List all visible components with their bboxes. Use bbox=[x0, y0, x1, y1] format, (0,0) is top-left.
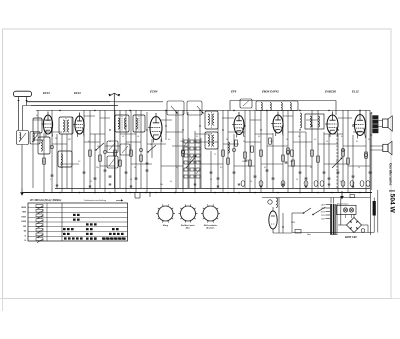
band switch table frame bbox=[28, 203, 128, 241]
coil BF2 windings bbox=[136, 118, 137, 129]
resistors mid band bbox=[43, 148, 368, 166]
svg-text:LW: LW bbox=[23, 226, 26, 228]
svg-text:2k: 2k bbox=[243, 141, 245, 143]
label knob right bbox=[204, 224, 218, 229]
svg-text:220V: 220V bbox=[290, 222, 296, 224]
label B250 C90 bbox=[345, 235, 357, 239]
coil L2 squiggle bbox=[63, 120, 69, 132]
IF transformer can T2 bbox=[205, 111, 218, 129]
rectifier tube V8 bbox=[269, 207, 277, 233]
svg-text:0,1: 0,1 bbox=[176, 167, 178, 169]
electrolytic capacitors row bbox=[241, 181, 370, 187]
svg-text:0,1: 0,1 bbox=[36, 115, 38, 117]
tube V7 bbox=[353, 111, 366, 139]
potentiometer volume bbox=[186, 155, 197, 168]
wire antenna lead to set bbox=[27, 101, 111, 103]
svg-text:ZF=468 kHz (M+L)=460kHz: ZF=468 kHz (M+L)=460kHz bbox=[29, 199, 62, 202]
svg-text:10: 10 bbox=[130, 179, 132, 181]
svg-text:0,1: 0,1 bbox=[170, 181, 172, 183]
label tube V3 ECH4 bbox=[150, 90, 158, 94]
label UKW small bbox=[290, 222, 296, 224]
svg-text:0,1: 0,1 bbox=[90, 181, 92, 183]
wires upper links bbox=[33, 116, 366, 134]
tuner box top B bbox=[187, 101, 204, 115]
svg-text:0,1: 0,1 bbox=[264, 167, 266, 169]
coil L7 squiggle bbox=[208, 135, 214, 146]
coil can2 windings bbox=[61, 154, 62, 165]
svg-text:25: 25 bbox=[109, 141, 111, 143]
tube V4 bbox=[232, 112, 244, 138]
dial lamp La1 bbox=[343, 208, 347, 212]
mains switch bbox=[292, 208, 311, 214]
speaker LS1 bbox=[383, 116, 393, 131]
wire rectifier riser bbox=[278, 198, 280, 234]
capacitor electrolytic C90 bbox=[373, 198, 376, 233]
ground antenna bbox=[20, 187, 24, 195]
label tube V2 EF13 bbox=[74, 91, 81, 95]
switch antenna selector bbox=[18, 102, 20, 131]
wire lamps leads bbox=[341, 198, 352, 226]
IF transformer can T1 bbox=[59, 117, 73, 134]
ground arrow right bbox=[340, 191, 344, 199]
fuse box small bbox=[350, 195, 355, 198]
svg-text:0,5: 0,5 bbox=[314, 139, 316, 141]
svg-text:5: 5 bbox=[50, 179, 51, 181]
svg-text:EM34 EAF42: EM34 EAF42 bbox=[262, 90, 279, 94]
wire output transformer bracket bbox=[370, 113, 372, 135]
knob front view right bbox=[201, 204, 220, 222]
svg-text:5k: 5k bbox=[356, 141, 358, 143]
tube V2 bbox=[73, 113, 84, 138]
svg-text:0,1: 0,1 bbox=[88, 141, 90, 143]
svg-text:0,5: 0,5 bbox=[220, 167, 222, 169]
svg-text:MW: MW bbox=[22, 212, 26, 214]
wire antenna down-leads bbox=[26, 102, 28, 106]
svg-text:0,1: 0,1 bbox=[118, 161, 120, 163]
junction dots mid bbox=[51, 110, 360, 131]
wire power bottom rail bbox=[262, 197, 370, 199]
coil BF1 windings bbox=[118, 118, 126, 129]
svg-text:10k: 10k bbox=[290, 161, 293, 163]
svg-text:EL12: EL12 bbox=[352, 90, 359, 94]
tube V6 bbox=[325, 112, 338, 138]
filter choke above rectifier bbox=[268, 198, 278, 208]
svg-text:0,1: 0,1 bbox=[341, 136, 343, 138]
svg-text:1k: 1k bbox=[358, 167, 360, 169]
band filter can BF2 bbox=[133, 115, 145, 132]
svg-text:25k: 25k bbox=[198, 161, 201, 163]
IF transformer can T3 bbox=[205, 132, 218, 149]
coil box M1 bbox=[107, 141, 118, 153]
antenna dipole FM bbox=[108, 93, 120, 110]
svg-text:B250 C90: B250 C90 bbox=[345, 235, 357, 239]
coil L5 vertical bbox=[300, 113, 302, 128]
tube V3 bbox=[148, 113, 162, 143]
switch zigzag linkage bbox=[37, 206, 43, 243]
wire second lead bbox=[23, 105, 119, 107]
svg-text:0,1: 0,1 bbox=[258, 136, 260, 138]
svg-text:100: 100 bbox=[242, 161, 245, 163]
wire chassis bus bbox=[22, 192, 372, 194]
svg-text:Netz: Netz bbox=[307, 233, 311, 236]
oscillator coil can bbox=[38, 137, 50, 154]
svg-text:L4: L4 bbox=[122, 136, 124, 138]
trimmer circles bbox=[50, 145, 367, 156]
capacitors mid band bbox=[51, 163, 372, 179]
svg-text:EF13: EF13 bbox=[43, 91, 50, 95]
knob front view left bbox=[156, 204, 175, 222]
dial lamps box bbox=[337, 205, 357, 214]
bridge rectifier Gr1 bbox=[347, 218, 362, 233]
table row labels bbox=[21, 207, 27, 242]
wire mains vertical bbox=[291, 213, 293, 233]
svg-text:25: 25 bbox=[210, 179, 212, 181]
svg-text:Drehkondensator-Stellung: Drehkondensator-Stellung bbox=[84, 199, 107, 202]
coil box M3 bbox=[107, 156, 118, 168]
switch arm band bbox=[95, 143, 104, 151]
svg-text:Abstimm.: Abstimm. bbox=[205, 227, 215, 230]
svg-text:50: 50 bbox=[134, 167, 136, 169]
svg-text:UKW: UKW bbox=[21, 207, 26, 209]
svg-text:0,5: 0,5 bbox=[168, 139, 170, 141]
wave switch contact bank bbox=[183, 138, 201, 188]
tube V1 bbox=[41, 112, 52, 138]
table title ZF bbox=[29, 199, 62, 202]
fuse circle bbox=[361, 229, 365, 233]
coil L8 bbox=[228, 142, 229, 153]
svg-text:50: 50 bbox=[310, 167, 312, 169]
knob front view middle bbox=[179, 204, 198, 222]
svg-text:ECH4: ECH4 bbox=[150, 90, 158, 94]
wires stage verticals bbox=[33, 110, 370, 193]
speaker LS2 bbox=[383, 141, 392, 155]
svg-text:10: 10 bbox=[296, 179, 298, 181]
mechanical link dashed bbox=[336, 135, 338, 188]
dial lamp La2 bbox=[349, 208, 353, 212]
wire mains bottom bbox=[292, 232, 374, 234]
coil can lower2 bbox=[58, 151, 72, 167]
svg-text:EF9: EF9 bbox=[231, 90, 237, 94]
voltage selector contacts bbox=[321, 204, 330, 220]
svg-text:10k: 10k bbox=[160, 184, 163, 186]
svg-text:2k: 2k bbox=[326, 141, 328, 143]
svg-text:Skalenlampen: Skalenlampen bbox=[337, 203, 348, 205]
label Netz bbox=[295, 230, 311, 237]
label knob middle bbox=[181, 224, 195, 229]
svg-text:EF13: EF13 bbox=[74, 91, 81, 95]
antenna A1 bbox=[14, 91, 32, 102]
switch arm band 2 bbox=[147, 145, 156, 153]
switch contact squares column bbox=[36, 205, 43, 241]
switch box S1 bbox=[17, 131, 29, 145]
capacitor extra1 bbox=[245, 160, 288, 163]
svg-text:0,5: 0,5 bbox=[78, 161, 80, 163]
label knob left bbox=[163, 225, 169, 227]
switch box S2 bbox=[30, 132, 40, 145]
svg-text:50: 50 bbox=[226, 139, 228, 141]
junction dots on chassis bus bbox=[59, 192, 361, 194]
svg-text:50: 50 bbox=[368, 139, 370, 141]
wire left vertical bbox=[21, 106, 24, 188]
component value labels bbox=[36, 115, 370, 186]
svg-text:20k: 20k bbox=[96, 167, 99, 169]
wire speaker leads bbox=[370, 121, 383, 151]
label lamps bbox=[337, 203, 348, 205]
resistor extra1 bbox=[235, 138, 294, 156]
svg-text:100: 100 bbox=[60, 167, 63, 169]
tube V5 bbox=[271, 112, 283, 137]
svg-text:| 504 W: | 504 W bbox=[389, 190, 396, 214]
svg-text:10k: 10k bbox=[180, 141, 183, 143]
capacitors to chassis bbox=[56, 184, 354, 187]
tuner box top A bbox=[167, 101, 184, 115]
svg-text:Klang: Klang bbox=[163, 225, 169, 227]
tuner box top D bbox=[240, 99, 252, 108]
wire bridge connections bbox=[338, 214, 368, 233]
band filter can BF1 bbox=[115, 115, 129, 132]
output transformer T5 bbox=[372, 115, 378, 133]
wires stage horizontal links bbox=[33, 140, 370, 166]
wire B+ rail bbox=[36, 110, 370, 112]
svg-text:5k: 5k bbox=[286, 139, 288, 141]
wire top rail right bbox=[230, 101, 336, 116]
caption model side text bbox=[388, 163, 395, 214]
label tube V6 EABC80 bbox=[325, 90, 336, 94]
wire chassis bus upper bbox=[55, 188, 370, 190]
svg-text:0,1: 0,1 bbox=[250, 181, 252, 183]
voltage selector arm bbox=[312, 207, 325, 215]
label tube V7 EL12 bbox=[352, 90, 359, 94]
svg-text:0,1: 0,1 bbox=[196, 136, 198, 138]
potentiometer tone bbox=[332, 157, 343, 168]
wire right border bbox=[370, 112, 378, 235]
svg-text:0,2: 0,2 bbox=[42, 161, 44, 163]
svg-text:Abst.: Abst. bbox=[185, 227, 191, 230]
svg-text:L6: L6 bbox=[137, 136, 139, 138]
label tube V4 EF9 bbox=[231, 90, 237, 94]
svg-text:50: 50 bbox=[55, 138, 57, 140]
ratio detector box bbox=[305, 114, 324, 129]
svg-text:30: 30 bbox=[298, 136, 300, 138]
coil osc windings bbox=[41, 140, 42, 151]
coil can L1 bbox=[33, 118, 42, 133]
wires below bus stubs bbox=[135, 192, 151, 198]
power transformer T4 bbox=[330, 198, 337, 235]
coil box M2 bbox=[120, 144, 130, 155]
label tube V1 EF13 bbox=[43, 91, 50, 95]
junction dot power bbox=[282, 226, 284, 228]
label tube V5 EM34 EAF42 bbox=[262, 90, 279, 94]
svg-text:Gerätename: Gerätename bbox=[388, 163, 393, 186]
coil L3 squiggle bbox=[208, 114, 214, 125]
tuner box top C bbox=[256, 101, 298, 111]
coil in detector box bbox=[310, 116, 319, 127]
switch contact marks bbox=[63, 214, 126, 240]
svg-text:EABC80: EABC80 bbox=[325, 90, 336, 94]
wire AVC bus bbox=[27, 102, 163, 106]
svg-text:T2: T2 bbox=[214, 154, 216, 156]
wire power link bbox=[273, 213, 292, 233]
svg-text:1k: 1k bbox=[150, 144, 152, 146]
table title right bbox=[84, 199, 123, 202]
